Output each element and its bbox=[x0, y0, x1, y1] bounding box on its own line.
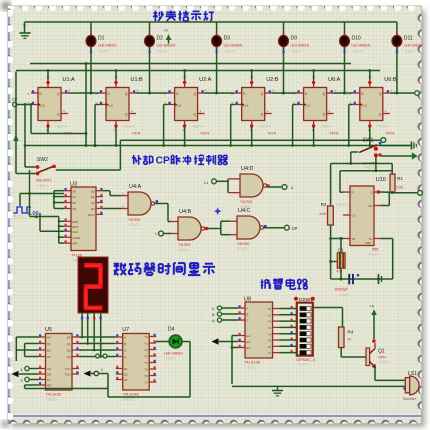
svg-text:L1: L1 bbox=[204, 181, 208, 185]
svg-text:7474: 7474 bbox=[385, 130, 395, 135]
svg-text:LED-GREEN: LED-GREEN bbox=[352, 43, 371, 47]
svg-text:C: C bbox=[212, 307, 215, 311]
svg-text:Q2: Q2 bbox=[91, 201, 95, 205]
svg-text:CLK: CLK bbox=[243, 103, 249, 107]
svg-text:D4: D4 bbox=[168, 327, 175, 333]
svg-text:Q3: Q3 bbox=[67, 355, 71, 359]
svg-text:Y2: Y2 bbox=[144, 348, 148, 352]
svg-text:<TEXT>: <TEXT> bbox=[291, 50, 303, 54]
svg-text:4: 4 bbox=[291, 186, 293, 190]
svg-text:SW1: SW1 bbox=[363, 138, 374, 144]
svg-text:3: 3 bbox=[21, 379, 23, 383]
svg-text:<TEXT>: <TEXT> bbox=[123, 125, 136, 129]
svg-text:GND: GND bbox=[365, 241, 371, 245]
svg-text:<TEXT>: <TEXT> bbox=[55, 125, 68, 129]
svg-text:C: C bbox=[247, 319, 249, 323]
svg-text:NPN: NPN bbox=[378, 356, 386, 360]
svg-text:<TEXT>: <TEXT> bbox=[240, 205, 252, 209]
svg-text:+5: +5 bbox=[164, 29, 168, 33]
svg-text:B: B bbox=[124, 342, 126, 346]
svg-text:D3: D3 bbox=[73, 207, 77, 211]
svg-text:+5: +5 bbox=[370, 305, 374, 309]
svg-text:DIPSWC_8: DIPSWC_8 bbox=[297, 358, 315, 362]
svg-text:<TEXT>: <TEXT> bbox=[237, 247, 249, 251]
svg-text:<TEXT>: <TEXT> bbox=[46, 398, 58, 402]
svg-text:CLK: CLK bbox=[176, 103, 182, 107]
svg-text:U7: U7 bbox=[122, 327, 129, 333]
svg-text:10000pF: 10000pF bbox=[334, 288, 347, 292]
svg-text:E1: E1 bbox=[124, 367, 128, 371]
svg-text:<TEXT>: <TEXT> bbox=[320, 125, 333, 129]
svg-text:Q1: Q1 bbox=[67, 342, 71, 346]
svg-text:D0: D0 bbox=[47, 336, 51, 340]
svg-text:Q1: Q1 bbox=[378, 348, 385, 354]
svg-text:7474: 7474 bbox=[267, 130, 277, 135]
svg-text:<TEXT>: <TEXT> bbox=[157, 50, 169, 54]
svg-text:<TEXT>: <TEXT> bbox=[404, 50, 416, 54]
svg-text:Y7: Y7 bbox=[268, 351, 272, 355]
svg-text:U2:B: U2:B bbox=[266, 77, 279, 83]
svg-text:<TEXT>: <TEXT> bbox=[258, 125, 271, 129]
svg-text:4: 4 bbox=[21, 368, 23, 372]
svg-text:A: A bbox=[124, 336, 126, 340]
svg-text:LS1: LS1 bbox=[408, 371, 417, 377]
svg-text:CLK: CLK bbox=[73, 230, 79, 234]
svg-text:MR: MR bbox=[47, 384, 51, 388]
svg-text:Y6: Y6 bbox=[268, 345, 272, 349]
svg-text:CP: CP bbox=[156, 156, 170, 167]
svg-text:<TEXT>: <TEXT> bbox=[12, 215, 24, 219]
svg-text:CLK: CLK bbox=[305, 103, 311, 107]
svg-text:CP: CP bbox=[292, 226, 298, 231]
svg-text:A: A bbox=[247, 307, 249, 311]
svg-text:<TEXT>: <TEXT> bbox=[338, 294, 350, 298]
svg-text:<TEXT>: <TEXT> bbox=[297, 363, 309, 367]
svg-text:<TEXT>: <TEXT> bbox=[244, 366, 256, 370]
svg-text:PL: PL bbox=[47, 378, 51, 382]
svg-text:LED-GREEN: LED-GREEN bbox=[404, 43, 423, 47]
svg-text:D11: D11 bbox=[404, 36, 413, 42]
svg-text:Y2: Y2 bbox=[268, 320, 272, 324]
svg-text:LED-GREEN: LED-GREEN bbox=[224, 43, 243, 47]
svg-text:74LS00: 74LS00 bbox=[128, 218, 140, 222]
svg-text:<TEXT>: <TEXT> bbox=[36, 184, 48, 188]
svg-text:D2: D2 bbox=[73, 201, 77, 205]
svg-text:TCD: TCD bbox=[65, 373, 71, 377]
svg-text:CLK: CLK bbox=[40, 103, 46, 107]
svg-text:<TEXT>: <TEXT> bbox=[336, 203, 348, 207]
svg-text:<TEXT>: <TEXT> bbox=[368, 253, 380, 257]
svg-text:Y3: Y3 bbox=[268, 326, 272, 330]
svg-text:LED-GREEN: LED-GREEN bbox=[164, 352, 183, 356]
svg-text:R2: R2 bbox=[321, 202, 327, 207]
svg-text:Y0: Y0 bbox=[144, 335, 148, 339]
svg-text:Q0: Q0 bbox=[67, 336, 71, 340]
svg-text:U6:B: U6:B bbox=[384, 77, 397, 83]
svg-text:Y3: Y3 bbox=[144, 355, 148, 359]
svg-text:74LS138: 74LS138 bbox=[244, 360, 261, 365]
svg-text:SW-SPST: SW-SPST bbox=[36, 179, 51, 183]
svg-text:E2: E2 bbox=[247, 340, 251, 344]
svg-text:7474: 7474 bbox=[132, 130, 142, 135]
svg-text:1: 1 bbox=[101, 368, 103, 372]
svg-text:E3: E3 bbox=[247, 346, 251, 350]
svg-text:UP: UP bbox=[47, 367, 51, 371]
svg-text:CLK: CLK bbox=[361, 103, 367, 107]
svg-text:74LS00: 74LS00 bbox=[240, 200, 252, 204]
svg-text:U6:A: U6:A bbox=[328, 77, 341, 83]
svg-text:Y0: Y0 bbox=[268, 307, 272, 311]
svg-text:LED-GREEN: LED-GREEN bbox=[157, 43, 176, 47]
svg-text:Y1: Y1 bbox=[268, 313, 272, 317]
svg-text:Y1: Y1 bbox=[144, 342, 148, 346]
svg-text:CV: CV bbox=[352, 214, 356, 218]
svg-text:1k: 1k bbox=[348, 338, 352, 342]
svg-text:D9: D9 bbox=[291, 36, 298, 42]
svg-text:DC: DC bbox=[368, 204, 372, 208]
svg-text:D0: D0 bbox=[73, 189, 77, 193]
svg-text:<TEXT>: <TEXT> bbox=[178, 248, 190, 252]
svg-text:LED-GREEN: LED-GREEN bbox=[98, 43, 117, 47]
svg-text:U4:D: U4:D bbox=[241, 166, 254, 172]
svg-text:5.6K: 5.6K bbox=[396, 186, 404, 190]
svg-text:TCU: TCU bbox=[65, 367, 71, 371]
svg-text:74LS192: 74LS192 bbox=[45, 391, 62, 396]
svg-text:D2: D2 bbox=[47, 349, 51, 353]
svg-text:Q2: Q2 bbox=[67, 349, 71, 353]
svg-text:<TEXT>: <TEXT> bbox=[123, 398, 135, 402]
svg-text:555: 555 bbox=[372, 248, 378, 252]
svg-text:Y5: Y5 bbox=[268, 339, 272, 343]
svg-text:ENT: ENT bbox=[73, 225, 79, 229]
svg-text:U8: U8 bbox=[244, 297, 251, 303]
svg-text:D1: D1 bbox=[47, 342, 51, 346]
svg-text:CLK: CLK bbox=[108, 103, 114, 107]
svg-text:<TEXT>: <TEXT> bbox=[352, 50, 364, 54]
svg-text:U1:B: U1:B bbox=[131, 77, 144, 83]
svg-text:7474: 7474 bbox=[329, 130, 339, 135]
svg-text:Q3: Q3 bbox=[91, 207, 95, 211]
svg-text:D: D bbox=[124, 355, 126, 359]
svg-text:Y6: Y6 bbox=[144, 374, 148, 378]
svg-text:D3: D3 bbox=[224, 36, 231, 42]
svg-text:U10: U10 bbox=[376, 177, 386, 183]
svg-text:<TEXT>: <TEXT> bbox=[98, 50, 110, 54]
svg-text:U3: U3 bbox=[70, 182, 77, 188]
svg-text:TH: TH bbox=[369, 237, 373, 241]
svg-text:CP: CP bbox=[12, 98, 18, 102]
svg-text:E1: E1 bbox=[247, 334, 251, 338]
svg-text:<TEXT>: <TEXT> bbox=[224, 50, 236, 54]
svg-text:TR: TR bbox=[352, 237, 356, 241]
svg-text:74LS248: 74LS248 bbox=[123, 391, 140, 396]
svg-text:U1:A: U1:A bbox=[63, 77, 76, 83]
svg-text:U2:A: U2:A bbox=[199, 77, 212, 83]
svg-text:E2: E2 bbox=[124, 373, 128, 377]
svg-text:<TEXT>: <TEXT> bbox=[191, 125, 204, 129]
svg-text:R4: R4 bbox=[348, 330, 354, 335]
svg-text:5.6K: 5.6K bbox=[320, 212, 328, 216]
svg-text:Y7: Y7 bbox=[144, 381, 148, 385]
svg-text:DN: DN bbox=[47, 373, 51, 377]
svg-text:D10: D10 bbox=[352, 36, 361, 42]
svg-text:<TEXT>: <TEXT> bbox=[378, 361, 390, 365]
svg-text:R: R bbox=[352, 191, 354, 195]
svg-text:U4:B: U4:B bbox=[179, 209, 192, 215]
svg-text:Q0: Q0 bbox=[91, 189, 95, 193]
svg-text:Sounder: Sounder bbox=[403, 397, 417, 401]
svg-text:1: 1 bbox=[155, 232, 157, 236]
svg-text:D1: D1 bbox=[98, 36, 105, 42]
svg-text:<TEXT>: <TEXT> bbox=[376, 125, 389, 129]
svg-text:Y4: Y4 bbox=[144, 361, 148, 365]
svg-text:Q1: Q1 bbox=[91, 195, 95, 199]
svg-text:D1: D1 bbox=[73, 195, 77, 199]
svg-text:Y5: Y5 bbox=[144, 368, 148, 372]
svg-text:C: C bbox=[124, 349, 126, 353]
svg-text:B: B bbox=[247, 313, 249, 317]
svg-text:LOAD: LOAD bbox=[73, 236, 81, 240]
svg-text:RCO: RCO bbox=[88, 213, 95, 217]
svg-text:Y4: Y4 bbox=[268, 332, 272, 336]
svg-text:<TEXT>: <TEXT> bbox=[164, 357, 176, 361]
svg-text:U4:A: U4:A bbox=[129, 184, 142, 190]
svg-text:74LS00: 74LS00 bbox=[178, 243, 190, 247]
svg-text:<TEXT>: <TEXT> bbox=[128, 223, 140, 227]
svg-text:74LS00: 74LS00 bbox=[237, 242, 249, 246]
svg-text:SW2: SW2 bbox=[37, 157, 48, 163]
svg-text:D3: D3 bbox=[47, 355, 51, 359]
svg-text:MR: MR bbox=[73, 242, 77, 246]
svg-text:<TEXT>: <TEXT> bbox=[363, 166, 375, 170]
svg-text:D2: D2 bbox=[157, 36, 164, 42]
svg-text:LED-GREEN: LED-GREEN bbox=[291, 43, 310, 47]
svg-text:ENP: ENP bbox=[73, 220, 79, 224]
svg-text:U5: U5 bbox=[45, 327, 52, 333]
svg-text:E3: E3 bbox=[124, 378, 128, 382]
svg-text:R1: R1 bbox=[397, 176, 403, 181]
svg-text:7474: 7474 bbox=[200, 130, 210, 135]
